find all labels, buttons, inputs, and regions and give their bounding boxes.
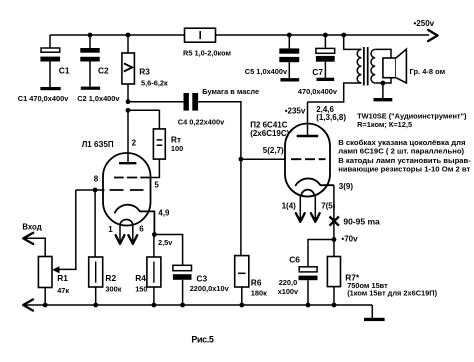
svg-text:Rт: Rт: [171, 134, 181, 144]
wire rail to ground: [371, 305, 373, 318]
anode P2: [297, 135, 319, 137]
speaker Gr. 4-8 om: [383, 49, 407, 83]
svg-text:R1: R1: [57, 273, 68, 283]
svg-text:C1: C1: [59, 65, 70, 75]
resistor R5: [185, 28, 216, 42]
svg-text:220,0: 220,0: [279, 278, 298, 287]
wire node A to C4: [128, 101, 184, 103]
svg-text:5(2,7): 5(2,7): [263, 146, 284, 155]
svg-text:47к: 47к: [57, 286, 69, 295]
node dot rail/R4: [152, 303, 157, 308]
node B anode/Rt junction: [126, 108, 131, 113]
svg-text:2,5v: 2,5v: [158, 238, 173, 247]
svg-text:C7: C7: [312, 67, 323, 77]
node dot R3/rail: [126, 33, 131, 38]
ground bar below C2: [81, 87, 100, 90]
svg-text:5: 5: [154, 180, 159, 189]
tube L1 envelope: [103, 153, 151, 226]
resistor R4: [147, 235, 161, 306]
svg-text:•250v: •250v: [414, 19, 435, 28]
svg-text:(1ком 15вт для 2х6С19П): (1ком 15вт для 2х6С19П): [347, 288, 437, 297]
screen grid L1 (dashed): [114, 177, 149, 179]
svg-text:Бумага в масле: Бумага в масле: [202, 87, 259, 96]
node dot rail/R6: [239, 303, 244, 308]
node dot C7/rail: [323, 33, 328, 38]
svg-text:2200,0x10v: 2200,0x10v: [190, 284, 230, 293]
svg-text:100: 100: [171, 144, 183, 153]
svg-text:4,9: 4,9: [158, 209, 170, 218]
node dot C2/rail: [88, 33, 93, 38]
wire P2 cathode down: [333, 185, 335, 239]
tube P2 envelope: [285, 124, 330, 197]
wire wiper riser: [59, 190, 76, 269]
svg-text:90-95 ma: 90-95 ma: [343, 217, 380, 227]
svg-text:180к: 180к: [251, 288, 267, 297]
svg-text:Гр. 4-8 ом: Гр. 4-8 ом: [410, 67, 446, 76]
svg-text:1(4): 1(4): [282, 201, 297, 210]
wire control grid to node: [76, 189, 105, 191]
svg-text:•70v: •70v: [341, 235, 358, 244]
wire grid node to R2: [94, 190, 96, 257]
node dot rail/R1: [43, 303, 48, 308]
svg-text:x100v: x100v: [278, 287, 299, 296]
svg-text:8: 8: [94, 174, 99, 183]
wire P2 anode lead: [307, 102, 309, 136]
node dot C5/rail: [287, 33, 292, 38]
node dot +70v: [332, 237, 337, 242]
svg-text:300к: 300к: [105, 284, 121, 293]
resistor Rt: [149, 129, 165, 178]
resistor R3: [122, 35, 134, 102]
ground bar below C7: [317, 78, 335, 81]
svg-text:C2 1,0x400v: C2 1,0x400v: [77, 94, 120, 103]
svg-text:Л1 6З5П: Л1 6З5П: [82, 140, 114, 149]
svg-text:R2: R2: [105, 273, 116, 283]
node dot secondary/ground: [381, 81, 386, 86]
node dot cathode/R4/C3: [152, 232, 157, 237]
transformer T1 secondary: [371, 49, 391, 83]
svg-text:R6: R6: [251, 277, 262, 287]
wire secondary to ground: [382, 83, 384, 98]
heater arrow pin1(4): [296, 196, 305, 222]
wire node B to Rt: [128, 110, 159, 129]
svg-text:C3: C3: [196, 273, 207, 283]
ground bar below C1: [40, 87, 60, 90]
wire top +250v rail right segment: [216, 34, 430, 36]
svg-text:150: 150: [135, 284, 147, 293]
ground below speaker: [374, 98, 393, 101]
wire grid node to P2 grid: [241, 158, 285, 160]
heater filament P2: [301, 190, 314, 196]
resistor R2: [89, 257, 103, 305]
node dot rail/R2: [93, 303, 98, 308]
capacitor C3: [173, 265, 192, 305]
svg-text:Рис.5: Рис.5: [191, 335, 213, 345]
svg-text:Вход: Вход: [22, 222, 41, 231]
svg-text:C2: C2: [98, 65, 109, 75]
control grid L1 (dashed): [110, 189, 144, 191]
svg-text:C1 470,0x400v: C1 470,0x400v: [18, 94, 69, 103]
svg-text:R5 1,0-2,0ком: R5 1,0-2,0ком: [183, 49, 231, 58]
node dot rail/R7: [332, 303, 337, 308]
transformer T1 primary: [308, 35, 362, 102]
capacitor C6: [299, 267, 318, 305]
cathode L1: [115, 205, 155, 235]
svg-text:R=1ком; К=12,5: R=1ком; К=12,5: [357, 120, 412, 129]
capacitor C1: [40, 35, 60, 87]
svg-text:R3: R3: [139, 67, 150, 77]
control grid P2 (dashed): [291, 158, 326, 160]
svg-text:R4: R4: [135, 273, 146, 283]
potentiometer R1 wiper arrow: [52, 266, 59, 273]
capacitor C7: [316, 35, 335, 78]
svg-text:1: 1: [108, 225, 113, 234]
heater arrow pin1: [116, 224, 125, 244]
capacitor C5: [279, 35, 299, 78]
svg-text:2: 2: [132, 139, 137, 148]
resistor R7: [327, 240, 340, 306]
current break X 90-95ma: [330, 217, 339, 226]
cathode P2: [295, 178, 334, 186]
svg-text:C5 1,0x400v: C5 1,0x400v: [245, 67, 288, 76]
svg-text:C4 0,22x400v: C4 0,22x400v: [178, 117, 225, 126]
svg-text:C6: C6: [289, 254, 300, 264]
wire node to C6: [308, 240, 334, 267]
arrow bottom rail left: [23, 299, 33, 310]
capacitor C4: [184, 93, 199, 111]
svg-text:(2х6С19С): (2х6С19С): [250, 129, 289, 138]
wire grid node down to R6: [240, 159, 242, 255]
svg-text:3(9): 3(9): [339, 182, 354, 191]
arrow input: [23, 233, 33, 244]
resistor R6: [235, 256, 249, 305]
svg-text:470,0x400v: 470,0x400v: [298, 87, 338, 96]
capacitor C2: [80, 35, 99, 87]
node C P2 grid junction: [239, 157, 244, 162]
ground bar below C5: [280, 78, 299, 81]
wire C4 to P2 grid riser: [198, 102, 241, 160]
svg-text:ламп 6С19С ( 2 шт. параллельно: ламп 6С19С ( 2 шт. параллельно): [338, 147, 464, 156]
wire L1 anode lead: [127, 110, 129, 163]
svg-text:(1,3,6,8): (1,3,6,8): [316, 113, 346, 122]
svg-text:6: 6: [139, 225, 144, 234]
svg-text:5,6-6,2к: 5,6-6,2к: [141, 79, 168, 88]
heater arrow pin6: [128, 224, 137, 244]
svg-text:нивающие резисторы 1-10 Ом 2 в: нивающие резисторы 1-10 Ом 2 вт: [338, 164, 470, 173]
heater filament L1: [120, 219, 133, 224]
wire cathode node to C3: [154, 235, 182, 266]
wire top +250v rail left segment: [50, 34, 185, 36]
ground bottom right: [364, 318, 385, 321]
node A anode/C4 junction: [126, 99, 131, 104]
svg-text:•235v: •235v: [285, 107, 306, 116]
potentiometer R1: [23, 238, 52, 305]
bottom rail: [23, 304, 372, 306]
arrow +250v rail end: [428, 30, 438, 41]
transformer T1 core: [364, 47, 368, 86]
node dot grid/R2: [93, 188, 98, 193]
node dot rail/C3: [180, 303, 185, 308]
heater arrow pin7(5): [311, 196, 320, 222]
node dot transformer/rail: [341, 33, 346, 38]
node dot rail/C6: [306, 303, 311, 308]
anode L1: [119, 162, 136, 164]
